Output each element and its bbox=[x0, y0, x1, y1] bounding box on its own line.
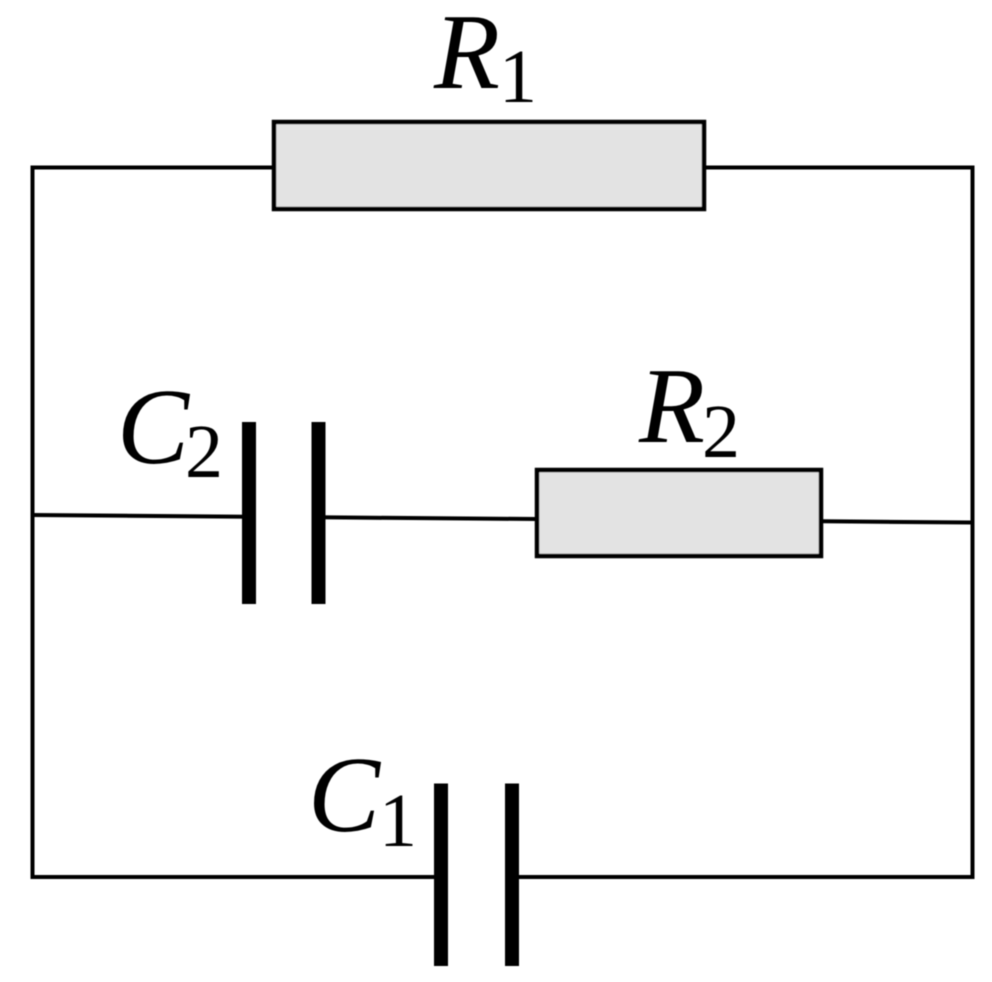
capacitor C2 right plate bbox=[312, 422, 326, 604]
wire bottom right segment (C1 right plate to right corner) bbox=[512, 875, 975, 879]
svg-text:2: 2 bbox=[185, 410, 223, 494]
svg-text:2: 2 bbox=[702, 390, 740, 474]
svg-text:1: 1 bbox=[379, 779, 417, 863]
resistor R2 bbox=[537, 470, 821, 556]
wire top (left corner to right corner, passes behind R1) bbox=[33, 166, 973, 170]
svg-text:C: C bbox=[308, 736, 382, 855]
svg-text:1: 1 bbox=[499, 35, 537, 119]
capacitor C1 right plate bbox=[505, 784, 519, 967]
svg-text:R: R bbox=[638, 347, 705, 466]
wire middle left segment (left rail to C2 left plate) bbox=[33, 515, 250, 517]
wire middle right segment (R2 to right rail) bbox=[823, 521, 973, 522]
svg-text:R: R bbox=[433, 0, 500, 112]
wire middle mid segment (C2 right plate to R2, passes behind R2) bbox=[319, 517, 824, 521]
resistor R1 bbox=[274, 122, 704, 209]
capacitor C2 left plate bbox=[242, 422, 256, 604]
svg-text:C: C bbox=[117, 368, 191, 487]
capacitor C1 left plate bbox=[434, 784, 448, 967]
wire bottom left segment (left corner to C1 left plate) bbox=[31, 875, 442, 879]
wire right rail bbox=[971, 166, 975, 880]
wire left rail bbox=[31, 166, 35, 880]
